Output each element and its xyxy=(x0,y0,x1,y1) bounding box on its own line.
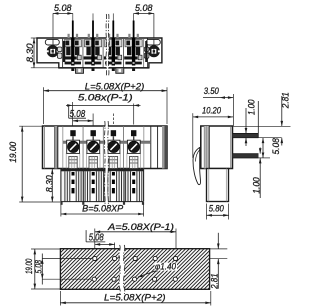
svg-text:5.80: 5.80 xyxy=(209,203,224,213)
svg-text:φ1.40: φ1.40 xyxy=(155,262,176,272)
front view: pin 1 (square) xyxy=(70,130,75,136)
top view: left flange screw head xyxy=(47,45,59,57)
svg-text:5.08: 5.08 xyxy=(271,138,281,155)
front view: screw recess 3 xyxy=(107,140,120,153)
front view: terminal unit 4 xyxy=(123,126,125,169)
top view: left flange screw slot xyxy=(45,39,59,45)
top view: right flange screw slot xyxy=(146,39,160,45)
front view: screw recess 2 xyxy=(87,140,100,153)
side view: latch hook xyxy=(193,148,201,185)
front view: shroud slot with pin 3 xyxy=(111,171,116,201)
top view: terminal unit 3 housing xyxy=(102,38,104,68)
top view: right flange detail recesses xyxy=(144,47,149,52)
svg-text:L=5.08X(P+2): L=5.08X(P+2) xyxy=(104,291,166,302)
front view: left end cap xyxy=(44,126,46,169)
svg-text:19.00: 19.00 xyxy=(24,259,34,274)
top view: solder pin 3 xyxy=(112,13,115,20)
svg-text:5.08: 5.08 xyxy=(54,3,72,13)
front view: pin 4 (square) xyxy=(131,130,136,136)
front view: terminal unit 3 xyxy=(102,126,104,169)
front view: shroud slot with pin 2 xyxy=(91,171,96,201)
front view: screw head 3 xyxy=(108,141,120,153)
front view: pin shroud lower section xyxy=(61,169,145,202)
front view: screw head 1 xyxy=(67,141,79,153)
top view: body outline with mounting flanges xyxy=(37,38,162,68)
front view: dimension B=5.08XP xyxy=(60,204,62,217)
front view: screw recess 1 xyxy=(67,140,80,153)
pcb layout: break line xyxy=(121,245,122,294)
pcb layout: drill holes upper row xyxy=(93,256,97,260)
front view: screw head 2 xyxy=(88,141,100,153)
front view: terminal unit 2 xyxy=(82,126,84,169)
top view: section wall left xyxy=(63,41,65,62)
front view: shroud slot with pin 4 xyxy=(131,171,136,201)
side view: lower solder pin xyxy=(233,154,259,158)
top view: mounting tab right xyxy=(116,68,124,74)
svg-text:5.08: 5.08 xyxy=(135,3,153,13)
top view: solder pin 4 xyxy=(132,13,135,20)
svg-text:8.30: 8.30 xyxy=(44,175,54,192)
svg-text:3.50: 3.50 xyxy=(204,86,219,96)
top view: solder pin 1 xyxy=(71,13,74,20)
top view: break line xyxy=(106,14,109,76)
front view: pin 2 (square) xyxy=(91,130,96,136)
top view: right flange screw head xyxy=(148,45,160,57)
svg-text:1.00: 1.00 xyxy=(251,177,261,194)
top view: terminal unit 4 housing xyxy=(123,38,125,68)
top view: terminal unit 1 housing xyxy=(62,38,64,68)
svg-text:19.00: 19.00 xyxy=(8,142,18,163)
side view: body xyxy=(201,126,233,169)
front view: clamp rail band xyxy=(63,141,151,144)
front view: terminal unit 1 xyxy=(62,126,64,169)
front view: screw head 4 xyxy=(128,141,140,153)
top view: left flange detail recesses xyxy=(57,47,62,52)
top view: pin stubs below body xyxy=(71,68,74,71)
front view: right end cap xyxy=(162,126,165,169)
front view: shroud bottom edge xyxy=(61,201,144,203)
svg-text:10.20: 10.20 xyxy=(202,105,221,115)
front view: screw recess 4 xyxy=(127,140,140,153)
top view: mounting tab left xyxy=(76,68,84,74)
svg-text:A=5.08X(P-1): A=5.08X(P-1) xyxy=(107,221,174,232)
svg-text:B=5.08XP: B=5.08XP xyxy=(82,203,123,213)
svg-text:1.00: 1.00 xyxy=(247,100,257,116)
side view: pin shroud xyxy=(207,169,229,202)
side view: upper solder pin xyxy=(233,134,259,138)
top view: terminal unit 2 housing xyxy=(82,38,84,68)
pcb layout: drill holes lower row xyxy=(92,277,96,281)
front view: break line xyxy=(105,121,108,207)
side view: left cap xyxy=(204,126,209,169)
pcb layout: hole diameter label 1.40 xyxy=(155,263,178,271)
front view: pin 3 (square) xyxy=(111,130,116,136)
svg-text:5.08x(P-1): 5.08x(P-1) xyxy=(78,91,133,102)
front view: body xyxy=(43,126,168,169)
svg-text:L=5.08X(P+2): L=5.08X(P+2) xyxy=(85,81,145,92)
front view: shroud slot with pin 1 xyxy=(71,171,76,201)
top view: section wall right xyxy=(145,41,147,62)
top view: solder pin 2 xyxy=(92,13,95,20)
